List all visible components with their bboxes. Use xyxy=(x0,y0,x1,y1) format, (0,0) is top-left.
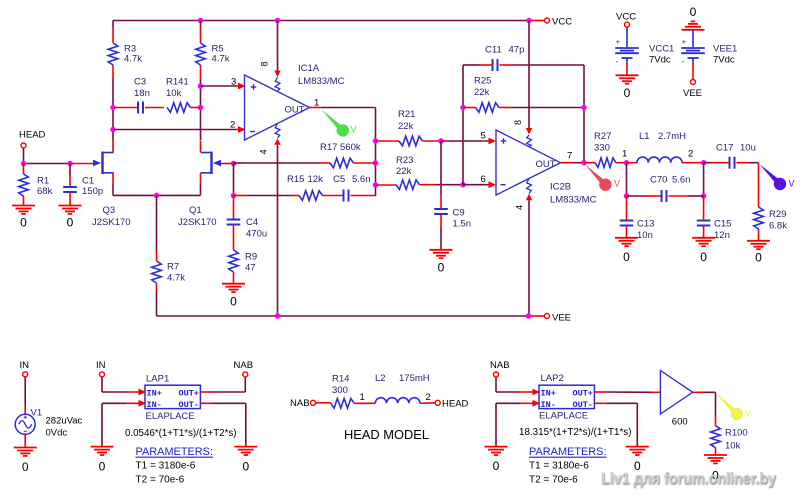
label ELAPLACE (LAP2) xyxy=(539,411,588,422)
svg-text:4.7k: 4.7k xyxy=(124,54,142,65)
node R7 tap xyxy=(154,193,160,199)
label VEE1 7Vdc xyxy=(713,44,737,66)
svg-text:NAB: NAB xyxy=(490,360,510,371)
label C9 1.5n xyxy=(453,208,472,230)
svg-text:10n: 10n xyxy=(637,230,653,241)
svg-text:22k: 22k xyxy=(474,87,490,98)
wire IC1A pin 2 input xyxy=(113,126,246,133)
wire HEAD node to Q3 gate xyxy=(24,163,94,165)
label IC1A LM833/MC xyxy=(298,63,345,87)
label IC2B LM833/MC xyxy=(550,182,597,206)
node top rail junction IC1A pin 8 xyxy=(275,18,281,24)
wire IC1A pin 3 input xyxy=(201,83,246,90)
ground 0 under C13 xyxy=(615,238,638,264)
label PARAMETERS (LAP2) xyxy=(529,446,607,458)
voltage probe V (yellow) at buffer output xyxy=(716,393,751,420)
label OUT (IC1A) xyxy=(285,104,305,115)
wire VCC top rail xyxy=(113,20,529,22)
svg-text:0: 0 xyxy=(755,251,762,265)
svg-text:0Vdc: 0Vdc xyxy=(46,428,68,439)
svg-text:18n: 18n xyxy=(134,88,150,99)
label V1 xyxy=(31,408,43,419)
label R141 10k xyxy=(166,77,189,99)
svg-text:R29: R29 xyxy=(769,209,786,220)
svg-text:12n: 12n xyxy=(714,230,730,241)
svg-text:T2 = 70e-6: T2 = 70e-6 xyxy=(529,475,578,486)
svg-text:LM833/MC: LM833/MC xyxy=(550,195,597,206)
capacitor C17 xyxy=(704,157,759,169)
svg-text:VEE: VEE xyxy=(683,88,702,99)
label Q1 J2SK170 xyxy=(178,205,217,228)
svg-text:ELAPLACE: ELAPLACE xyxy=(146,411,195,422)
svg-text:0: 0 xyxy=(230,295,237,309)
svg-text:V1: V1 xyxy=(31,408,43,419)
terminal IN (LAP1) xyxy=(96,360,106,377)
svg-text:IC1A: IC1A xyxy=(298,63,320,74)
svg-text:0: 0 xyxy=(67,216,74,230)
svg-text:282uVac: 282uVac xyxy=(46,416,83,427)
wire IC1A pin 8 V+ from rail xyxy=(274,21,280,92)
ground 0 under C9 xyxy=(430,250,453,275)
wire ground to LAP1 IN- xyxy=(102,400,146,447)
label C17 10u xyxy=(716,142,756,153)
svg-text:VCC: VCC xyxy=(552,17,572,28)
voltage source V1 282uVac xyxy=(15,377,35,448)
svg-text:0: 0 xyxy=(690,5,697,19)
svg-text:IN+: IN+ xyxy=(147,388,162,398)
wire to IC2B pin 6 xyxy=(463,181,496,188)
node IC2B pin6 junction xyxy=(460,182,466,188)
pin number 8 (IC1A) xyxy=(260,61,270,66)
svg-text:V: V xyxy=(745,408,751,418)
ground 0 under R1 xyxy=(12,206,35,230)
svg-text:2: 2 xyxy=(688,149,693,160)
svg-text:-: - xyxy=(682,57,685,67)
label LAP1 xyxy=(146,374,169,385)
svg-text:HEAD: HEAD xyxy=(442,399,469,410)
svg-text:C9: C9 xyxy=(453,208,465,219)
pin number 1 (IC1A) xyxy=(314,97,319,108)
wire NAB to LAP2 IN+ xyxy=(496,377,540,395)
capacitor C9 xyxy=(434,141,448,250)
voltage source VEE1 7Vdc xyxy=(681,30,705,99)
terminal NAB (LAP1) xyxy=(234,360,254,377)
label R23 22k xyxy=(396,155,413,177)
svg-text:C17: C17 xyxy=(716,142,733,153)
inductor L1 xyxy=(627,157,704,163)
wire C13 column xyxy=(626,163,628,196)
label C70 5.6n xyxy=(650,174,691,185)
wire LAP1 OUT+ to NAB xyxy=(200,377,245,392)
label R3 4.7k xyxy=(124,44,142,65)
svg-text:4.7k: 4.7k xyxy=(167,273,185,284)
node R17 tap xyxy=(373,160,379,166)
svg-text:R141: R141 xyxy=(166,77,189,88)
svg-text:T2 = 70e-6: T2 = 70e-6 xyxy=(136,475,185,486)
svg-text:4: 4 xyxy=(515,205,525,210)
svg-text:560k: 560k xyxy=(340,142,361,153)
terminal NAB (LAP2) xyxy=(490,360,510,377)
svg-text:VCC: VCC xyxy=(616,11,636,22)
label T2 = 70e-6 (LAP2) xyxy=(529,475,578,486)
svg-text:L2: L2 xyxy=(375,373,386,384)
svg-text:V: V xyxy=(351,125,357,135)
ground 0 under VCC1 xyxy=(616,75,639,100)
svg-text:R9: R9 xyxy=(245,252,257,263)
wire feedback right column x=584 xyxy=(583,65,585,163)
svg-text:LM833/MC: LM833/MC xyxy=(298,76,345,87)
svg-text:10k: 10k xyxy=(725,441,741,452)
label R29 6.8k xyxy=(769,209,787,232)
svg-text:22k: 22k xyxy=(398,121,414,132)
svg-text:IN+: IN+ xyxy=(541,388,556,398)
resistor R29 xyxy=(754,163,764,241)
wire gate node down to C4 node xyxy=(233,164,235,196)
capacitor C70 xyxy=(627,190,704,202)
label ELAPLACE (LAP1) xyxy=(146,411,195,422)
resistor R7 xyxy=(152,195,162,316)
svg-text:3: 3 xyxy=(231,77,236,88)
node R3/C3 junction xyxy=(110,105,116,111)
svg-text:47p: 47p xyxy=(509,44,525,55)
node IC2B output junction xyxy=(581,160,587,166)
label C1 150p xyxy=(82,176,103,197)
svg-text:IN: IN xyxy=(96,360,106,371)
label T1 = 3180e-6 (LAP1) xyxy=(136,461,196,472)
label C11 47p xyxy=(485,44,524,55)
label R100 10k xyxy=(725,428,748,452)
label 282uVac 0Vdc xyxy=(46,416,83,439)
svg-text:68k: 68k xyxy=(37,186,53,197)
pin number 5 xyxy=(481,131,486,142)
wire output column x=375.5 xyxy=(375,108,377,197)
wire ground to LAP2 IN- xyxy=(496,400,540,447)
capacitor C3 xyxy=(114,102,164,114)
svg-text:10u: 10u xyxy=(740,142,756,153)
label LAP2 transfer function xyxy=(519,427,632,438)
terminal NAB (head model) xyxy=(290,398,316,409)
label VCC1 7Vdc xyxy=(649,44,674,66)
svg-text:1: 1 xyxy=(622,149,627,160)
pin number 2 (L1) xyxy=(688,149,693,160)
svg-text:2: 2 xyxy=(426,392,431,403)
svg-text:C15: C15 xyxy=(714,219,731,230)
node HEAD/R1 junction xyxy=(21,161,27,167)
op-amp IC2B xyxy=(496,130,561,195)
svg-text:VEE1: VEE1 xyxy=(713,44,737,55)
pin number 8 (IC2B) xyxy=(513,120,523,125)
pin number 4 (IC1A) xyxy=(259,149,269,154)
label R7 4.7k xyxy=(167,262,185,284)
svg-text:0: 0 xyxy=(22,460,29,474)
wire IC1A pin 4 V- to VEE rail xyxy=(274,124,280,317)
node R25 left junction xyxy=(460,105,466,111)
svg-text:2.7mH: 2.7mH xyxy=(658,131,686,142)
wire R15/C5 row xyxy=(234,190,376,202)
svg-text:PARAMETERS:: PARAMETERS: xyxy=(529,446,607,458)
svg-text:5: 5 xyxy=(481,131,486,142)
wire IN to LAP1 IN+ xyxy=(102,377,146,396)
svg-text:V: V xyxy=(614,179,620,189)
svg-text:R27: R27 xyxy=(594,131,611,142)
voltage probe V (green) at IC1A output xyxy=(322,110,357,137)
resistor R23 xyxy=(376,180,464,190)
block LAP1 ELAPLACE xyxy=(145,385,200,410)
pin number 1 (L1) xyxy=(622,149,627,160)
transistor Q1 J2SK170 xyxy=(201,152,222,175)
svg-text:+: + xyxy=(616,38,621,47)
svg-text:8: 8 xyxy=(513,120,523,125)
ground 0 under LAP1 OUT- xyxy=(234,447,257,474)
svg-text:R17: R17 xyxy=(320,142,337,153)
svg-text:Liv1 для forum.onliner.by: Liv1 для forum.onliner.by xyxy=(601,471,776,488)
resistor R9 xyxy=(229,250,239,284)
svg-text:IC2B: IC2B xyxy=(550,182,571,193)
svg-text:0: 0 xyxy=(20,216,27,230)
node C4/R15 junction xyxy=(231,193,237,199)
svg-text:300: 300 xyxy=(332,385,348,396)
svg-text:C13: C13 xyxy=(637,219,654,230)
label T1 = 3180e-6 (LAP2) xyxy=(529,461,589,472)
resistor R14 xyxy=(316,399,376,409)
resistor R100 xyxy=(711,426,721,455)
wire Q1 drain stub xyxy=(200,141,202,153)
svg-text:600: 600 xyxy=(672,417,688,428)
svg-text:R21: R21 xyxy=(398,109,415,120)
svg-text:VCC1: VCC1 xyxy=(649,44,674,55)
capacitor C15 xyxy=(697,196,711,238)
resistor R5 xyxy=(196,21,206,141)
svg-text:4.7k: 4.7k xyxy=(212,54,230,65)
svg-text:150p: 150p xyxy=(82,186,103,197)
svg-text:12k: 12k xyxy=(308,174,324,185)
svg-text:7: 7 xyxy=(567,151,572,162)
svg-text:OUT-: OUT- xyxy=(179,400,199,410)
svg-text:47: 47 xyxy=(245,263,256,274)
svg-text:C5: C5 xyxy=(333,174,345,185)
pin number 6 xyxy=(481,174,486,185)
capacitor C4 xyxy=(227,196,241,251)
ground 0 under LAP2 OUT- xyxy=(626,447,649,473)
svg-text:R23: R23 xyxy=(396,155,413,166)
svg-text:HEAD MODEL: HEAD MODEL xyxy=(344,428,429,442)
svg-text:5.6n: 5.6n xyxy=(352,174,371,185)
svg-text:OUT: OUT xyxy=(285,104,305,115)
label R21 22k xyxy=(398,109,415,132)
ground 0 under C15 xyxy=(692,238,715,264)
label R25 22k xyxy=(474,75,491,98)
svg-text:5.6n: 5.6n xyxy=(672,174,691,185)
node C70 right xyxy=(701,193,707,199)
terminal VEE (bottom rail) xyxy=(531,313,571,324)
svg-text:0: 0 xyxy=(438,261,445,275)
svg-text:NAB: NAB xyxy=(290,398,310,409)
svg-text:0: 0 xyxy=(493,459,500,473)
resistor R27 xyxy=(584,158,627,168)
svg-text:R14: R14 xyxy=(332,374,349,385)
pin number 3 xyxy=(231,77,236,88)
svg-text:1.5n: 1.5n xyxy=(453,219,472,230)
node R21 tap xyxy=(373,138,379,144)
capacitor C11 xyxy=(463,59,584,71)
wire feedback R17 row xyxy=(234,158,376,168)
node L1 right (2) xyxy=(701,160,707,166)
svg-text:Q1: Q1 xyxy=(189,205,202,216)
op-amp IC1A xyxy=(245,75,310,140)
wire VEE bottom rail xyxy=(157,315,529,317)
svg-text:6.8k: 6.8k xyxy=(769,221,787,232)
label R15 12k C5 5.6n xyxy=(287,174,371,185)
voltage source VCC1 7Vdc xyxy=(615,11,639,75)
watermark Liv1 for forum.onliner.by xyxy=(601,471,777,489)
svg-text:HEAD: HEAD xyxy=(19,129,46,140)
svg-text:V: V xyxy=(789,179,795,189)
wire IC2B pin 8 V+ from rail xyxy=(526,21,532,147)
ground 0 under R9 xyxy=(222,284,245,309)
svg-text:+: + xyxy=(682,38,687,47)
svg-text:4: 4 xyxy=(259,149,269,154)
svg-text:10k: 10k xyxy=(166,88,182,99)
svg-text:470u: 470u xyxy=(246,229,267,240)
pin number 4 (IC2B) xyxy=(515,205,525,210)
label T2 = 70e-6 (LAP1) xyxy=(136,475,185,486)
node Q1 gate junction xyxy=(221,161,236,167)
svg-text:1: 1 xyxy=(314,97,319,108)
svg-text:18.315*(1+T2*s)/(1+T1*s): 18.315*(1+T2*s)/(1+T1*s) xyxy=(519,427,632,438)
capacitor C1 xyxy=(63,164,77,206)
resistor R141 xyxy=(167,103,201,113)
terminal IN (V1) xyxy=(20,360,30,377)
inductor L2 xyxy=(375,398,435,404)
label R17 560k xyxy=(320,142,361,153)
voltage probe V (red) at IC2B output xyxy=(585,165,620,191)
label HEAD MODEL xyxy=(344,428,429,442)
svg-text:1: 1 xyxy=(360,392,365,403)
node C70 left xyxy=(624,193,630,199)
svg-text:0: 0 xyxy=(700,250,707,264)
wire IC1A output pin 1 xyxy=(310,107,376,109)
svg-text:0: 0 xyxy=(623,250,630,264)
ground 0 above VEE1 xyxy=(682,5,705,30)
wire left column (R3 bottom to Q3 drain) xyxy=(112,108,114,153)
svg-text:330: 330 xyxy=(594,143,610,154)
ground 0 under LAP1 IN- xyxy=(91,447,114,474)
label R9 47 xyxy=(245,252,257,274)
block LAP2 ELAPLACE xyxy=(539,385,594,410)
svg-text:0.0546*(1+T1*s)/(1+T2*s): 0.0546*(1+T1*s)/(1+T2*s) xyxy=(125,428,237,439)
voltage probe V (violet) at output xyxy=(760,164,795,190)
label L1 2.7mH xyxy=(639,131,686,142)
wire C15 column xyxy=(703,163,705,196)
svg-text:PARAMETERS:: PARAMETERS: xyxy=(136,446,214,458)
wire to IC2B pin 5 xyxy=(441,138,496,145)
svg-text:175mH: 175mH xyxy=(399,373,430,384)
wire Q3/Q1 source rail xyxy=(113,173,201,195)
label 600 xyxy=(672,417,688,428)
svg-text:22k: 22k xyxy=(396,166,412,177)
terminal HEAD (head model) xyxy=(435,399,468,410)
svg-text:IN-: IN- xyxy=(541,400,556,410)
svg-text:J2SK170: J2SK170 xyxy=(92,217,131,228)
ground 0 under R100 xyxy=(704,455,727,483)
svg-text:7Vdc: 7Vdc xyxy=(649,55,671,66)
svg-text:VEE: VEE xyxy=(552,313,571,324)
wire LAP2 OUT- to ground xyxy=(594,403,637,446)
svg-text:R15: R15 xyxy=(287,174,304,185)
label LAP1 transfer function xyxy=(125,428,237,439)
svg-text:IN: IN xyxy=(20,360,30,371)
svg-text:0: 0 xyxy=(242,460,249,474)
wire IC2B output pin 7 xyxy=(561,162,585,164)
label C4 470u xyxy=(246,217,267,240)
pin number 7 (IC2B) xyxy=(567,151,572,162)
svg-text:ELAPLACE: ELAPLACE xyxy=(539,411,588,422)
label C13 10n xyxy=(637,219,654,242)
amplifier buffer gain 600 xyxy=(660,371,692,415)
wire IC2B pin 4 V- to VEE rail xyxy=(526,178,532,316)
svg-text:L1: L1 xyxy=(639,131,650,142)
wire LAP2 OUT+ to buffer xyxy=(594,391,660,393)
svg-text:7Vdc: 7Vdc xyxy=(713,55,735,66)
label R27 330 xyxy=(594,131,611,154)
svg-text:J2SK170: J2SK170 xyxy=(178,217,217,228)
svg-text:6: 6 xyxy=(481,174,486,185)
node C1 junction xyxy=(67,161,73,167)
node pin3 row junction xyxy=(198,83,204,89)
wire feedback left column x=463 xyxy=(462,65,464,185)
svg-text:Q3: Q3 xyxy=(103,205,116,216)
ground 0 under LAP2 IN- xyxy=(485,447,508,473)
svg-text:R25: R25 xyxy=(474,75,491,86)
pin number 2 (L2) xyxy=(426,392,431,403)
pin number 2 xyxy=(230,119,235,130)
svg-text:C70: C70 xyxy=(650,174,667,185)
label Q3 J2SK170 xyxy=(92,205,131,228)
resistor R3 xyxy=(108,21,118,108)
svg-text:NAB: NAB xyxy=(234,360,254,371)
svg-text:T1 = 3180e-6: T1 = 3180e-6 xyxy=(529,461,589,472)
ground 0 under V1 xyxy=(14,448,37,475)
label R14 300 xyxy=(332,374,349,397)
terminal HEAD input xyxy=(19,129,46,163)
label C3 18n xyxy=(134,77,150,99)
node R141/R5 junction xyxy=(198,105,204,111)
node pin2 row junction xyxy=(110,127,116,133)
svg-text:0: 0 xyxy=(624,86,631,100)
ground 0 under R29 xyxy=(747,241,770,265)
svg-text:C3: C3 xyxy=(134,77,146,88)
label OUT (IC2B) xyxy=(536,159,556,170)
svg-text:OUT+: OUT+ xyxy=(573,388,593,398)
svg-text:OUT: OUT xyxy=(536,159,556,170)
label R1 68k xyxy=(37,176,53,197)
ground 0 under C1 xyxy=(59,206,82,230)
label R5 4.7k xyxy=(212,44,230,65)
wire buffer output to R100 xyxy=(693,392,716,425)
node VEE rail / IC2B pin4 xyxy=(526,313,532,319)
svg-text:LAP2: LAP2 xyxy=(541,373,564,384)
node top rail junction R5 xyxy=(198,18,204,24)
node L1 left (1) xyxy=(624,160,630,166)
capacitor C13 xyxy=(620,196,634,238)
node top rail junction VCC xyxy=(526,18,532,24)
resistor R25 xyxy=(463,103,584,113)
label LAP2 xyxy=(541,373,564,384)
svg-text:-: - xyxy=(616,57,619,67)
svg-text:C4: C4 xyxy=(246,217,258,228)
node VEE rail / IC1A pin4 xyxy=(275,313,281,319)
node R25 right junction xyxy=(581,105,587,111)
